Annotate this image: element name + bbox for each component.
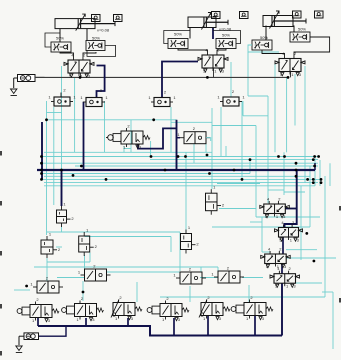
flow control B-left bypass — [164, 31, 190, 44]
svg-text:50%: 50% — [260, 35, 268, 40]
air service unit Z1 — [18, 75, 36, 82]
shuttle valve S3 — [148, 95, 176, 107]
wire S1 output stub — [60, 93, 62, 98]
flow control A-left bypass — [45, 33, 60, 47]
wire unit to supply line — [35, 76, 45, 78]
junction W1 left — [25, 285, 28, 288]
wire L4 supply drop — [173, 318, 175, 336]
wire cylC right port — [293, 26, 295, 33]
start valve M1 3/2 pushbutton — [106, 124, 150, 150]
wire valve V3 port1 stub — [290, 72, 292, 78]
svg-text:50%: 50% — [222, 33, 230, 38]
wire L3 supply drop — [127, 318, 129, 326]
valve V2 5/2 cylinder B — [198, 48, 228, 74]
wire bus to T1 — [61, 170, 63, 206]
wire L5 supply stub — [207, 315, 209, 336]
flow control C-right loop — [294, 37, 330, 56]
wire V2 port2 to FC B-right — [217, 49, 226, 53]
valve V1 5/2 cylinder A — [64, 53, 94, 79]
shuttle valve S4 — [217, 95, 245, 107]
air service unit Z2 — [24, 333, 39, 340]
timer valve T3 — [41, 232, 61, 259]
marker box A0 — [92, 15, 101, 22]
wire cylC left port — [265, 26, 267, 41]
valve W3 pilot 3/2 — [173, 267, 206, 285]
wire K3 to K4 link — [281, 264, 283, 274]
wire valve V2 port1 stub — [213, 68, 215, 77]
wire bus right end stub — [314, 163, 316, 170]
wire cascade supply drop — [281, 283, 283, 335]
compressed air source 2 — [16, 346, 22, 353]
limit valve L3 3/2 lever — [111, 295, 142, 321]
limit valve L6 3/2 roller — [231, 295, 273, 321]
shuttle valve S2 — [80, 95, 108, 107]
wire cylA left port — [59, 29, 61, 42]
flow control A-left — [51, 42, 71, 52]
flow control B-right — [216, 39, 236, 49]
svg-text:50%: 50% — [174, 32, 182, 37]
compressed air source 1 — [11, 89, 17, 96]
marker box A1 — [114, 15, 123, 22]
cascade valve K3 5/2 — [261, 247, 291, 270]
wire S3 output to V2 left pilot — [162, 62, 198, 98]
wire M2 left port feed — [177, 137, 181, 139]
wire V1 port4 to FC A-left — [60, 52, 74, 57]
cascade valve K2 5/2 — [275, 220, 303, 243]
wire valve V1 port1 stub — [80, 73, 82, 77]
wire K2 to K3 link — [282, 237, 284, 254]
cascade valve K1 5/2 — [260, 197, 290, 220]
valve W2 pilot 3/2 — [78, 264, 111, 282]
flow control B-left — [168, 39, 188, 49]
wire supply2 to manifold — [39, 326, 67, 336]
wire bottom manifold — [38, 326, 282, 336]
svg-text:v=0.08: v=0.08 — [97, 28, 110, 33]
cylinder C (1C) — [263, 11, 306, 29]
wire V1 port2 to FC A-right — [83, 52, 96, 57]
wire cylinder B right port — [212, 28, 214, 39]
valve V3 5/2 cylinder C — [275, 51, 305, 77]
valve M2 pilot 3/2 — [177, 126, 210, 144]
wire K1 right pilot branch — [285, 208, 296, 210]
marker box B1 — [240, 12, 249, 19]
timer valve T4 — [79, 228, 98, 257]
wire bus feeder left — [41, 122, 43, 180]
flow control C-left — [252, 40, 272, 50]
marker box C0 — [293, 11, 302, 18]
wire M2 out down — [206, 138, 211, 141]
flow control B-right bypass — [213, 31, 241, 44]
wire source to unit — [14, 77, 18, 79]
wire bus to K2 cascade — [285, 170, 297, 228]
timer valve T2 — [206, 185, 225, 215]
wire main supply line P — [35, 76, 287, 78]
marker box C1 — [315, 11, 324, 18]
wire S2 output to V1 right pilot — [97, 66, 105, 98]
wire V2 port4 to FC B-left — [178, 49, 208, 53]
flow control C-left bypass — [248, 45, 279, 52]
wire start valve to M2 and down — [138, 128, 177, 148]
cylinder A (1A) — [55, 14, 115, 31]
cylinder B (1B) — [188, 13, 228, 30]
valve W4 pilot 3/2 — [211, 266, 244, 284]
limit valve L2 3/2 roller — [62, 296, 104, 322]
wire L2 supply drop — [85, 318, 87, 326]
flow control C-right — [290, 32, 310, 42]
svg-text:50%: 50% — [92, 36, 100, 41]
wire L6 supply stub — [254, 315, 256, 336]
limit valve L4 3/2 roller — [147, 296, 189, 322]
cascade valve K4 5/2 — [270, 266, 300, 289]
pilot signal line bus (cyan network) — [14, 52, 336, 349]
timer valve T1 — [57, 202, 75, 228]
wire V3 port4 to FC C-left — [262, 50, 285, 56]
flow control A-right — [86, 41, 105, 51]
flow control A-right bypass — [87, 46, 116, 57]
limit valve L1 3/2 roller — [17, 297, 59, 323]
wire cylB left port — [189, 27, 191, 39]
limit valve L5 3/2 lever — [199, 295, 230, 321]
wire source2 to unit — [19, 335, 24, 337]
marker box B0 — [212, 12, 221, 19]
wire main bus line — [37, 169, 315, 171]
timer valve T5 — [181, 225, 200, 254]
wire L1 supply stub — [37, 318, 39, 326]
wire cylA right port — [86, 29, 88, 41]
wire S2 input feeder — [83, 102, 85, 170]
svg-text:50%: 50% — [298, 27, 306, 32]
valve W1 pilot 3/2 — [30, 276, 63, 294]
page margin ticks — [0, 151, 2, 156]
shuttle valve S1 — [48, 95, 76, 107]
wire riser to bus — [176, 120, 178, 170]
